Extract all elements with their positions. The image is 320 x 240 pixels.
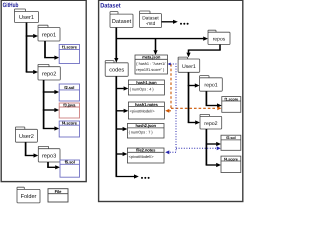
svg-text:User1: User1 (182, 64, 196, 70)
wire Dataset-mtd to ellipsis (162, 21, 174, 23)
link blue to file2.notes (167, 151, 176, 153)
svg-text:repo1: repo1 (204, 83, 217, 89)
file meta.json (135, 55, 168, 74)
svg-text:f2.sol: f2.sol (226, 136, 235, 140)
file f5.sol (60, 160, 80, 178)
file f3.java (59, 102, 79, 118)
wire branch to file2.notes (116, 153, 123, 155)
link orange to f1.score dataset (171, 107, 217, 109)
wire branch to f2.sol dataset (206, 143, 217, 145)
svg-text:repo2: repo2 (204, 121, 217, 127)
wire repo2 dataset trunk (205, 129, 207, 165)
svg-text:File: File (55, 189, 62, 194)
wire branch to repo2 dataset (188, 122, 196, 124)
wire codes trunk lower (115, 76, 117, 176)
folder User2 (15, 127, 37, 142)
wire Dataset trunk upper (115, 28, 117, 59)
file f4.score (59, 121, 79, 137)
svg-text:User1: User1 (19, 15, 34, 21)
folder repo2 (38, 64, 60, 80)
svg-text:{ numOps : 7 }: { numOps : 7 } (129, 130, 154, 135)
svg-text:f2.sol: f2.sol (64, 85, 74, 90)
svg-text:file2.notes: file2.notes (136, 148, 156, 153)
svg-text:repos: repos (213, 37, 226, 43)
svg-text:f4.score: f4.score (62, 121, 78, 126)
svg-text:Folder: Folder (21, 193, 37, 200)
GitHub container box (1, 0, 86, 181)
wire branch to f4.score dataset (206, 164, 217, 166)
folder repos (208, 30, 230, 44)
wire branch to hash1.notes (116, 110, 124, 112)
file f4.score dataset (221, 156, 241, 172)
wire branch to repo2 (26, 71, 34, 73)
wire repo1 to f1.score (44, 41, 46, 58)
wire branch to hash2.json (116, 128, 123, 130)
svg-text:repo1/f1.score" }: repo1/f1.score" } (136, 67, 165, 72)
svg-text:<pivotModel/>: <pivotModel/> (130, 109, 156, 114)
Dataset container box (99, 0, 243, 201)
file f1.score (59, 45, 79, 64)
svg-text:Dataset: Dataset (142, 15, 159, 21)
link orange vertical (170, 64, 172, 110)
svg-text:repo3: repo3 (42, 154, 56, 160)
svg-text:{ numOps : 4 }: { numOps : 4 } (130, 87, 155, 92)
wire User2 to repo3 (25, 142, 27, 155)
svg-text:-mtd: -mtd (146, 21, 156, 27)
wire User1 dataset trunk (188, 72, 190, 122)
wire repos elbow to User1 (219, 45, 221, 51)
folder repo1 dataset (200, 76, 223, 92)
wire branch to repo1 dataset (188, 85, 195, 87)
wire branch to f2.sol (43, 91, 55, 93)
wire repo3 to f5.sol (47, 162, 49, 167)
wire drop to meta.json (155, 39, 157, 51)
legend folder icon (17, 187, 40, 203)
svg-text:f1.score: f1.score (224, 97, 238, 101)
svg-text:f3.java: f3.java (63, 102, 76, 107)
svg-text:GitHub: GitHub (3, 2, 19, 9)
ellipsis after mtd arrow (180, 23, 189, 25)
wire branch to f4.score (43, 128, 55, 130)
file f1.score dataset (222, 97, 241, 113)
svg-text:<pivotModel/>: <pivotModel/> (129, 154, 155, 159)
svg-text:repo1: repo1 (42, 32, 56, 38)
file file2.notes (127, 148, 164, 163)
svg-text:hash2.json: hash2.json (136, 123, 157, 128)
folder repo1 (38, 25, 60, 41)
svg-text:repo2: repo2 (42, 72, 56, 78)
folder repo3 (38, 146, 60, 162)
wire branch to f3.java (43, 109, 55, 111)
wire User1 trunk (26, 23, 28, 73)
svg-text:Dataset: Dataset (112, 19, 132, 25)
svg-text:meta.json: meta.json (142, 55, 161, 60)
svg-text:{ hash1 : "/user1/: { hash1 : "/user1/ (136, 61, 166, 66)
folder Dataset (110, 12, 133, 28)
svg-text:hash1.json: hash1.json (136, 80, 157, 85)
wire branch to hash1.json (116, 88, 124, 90)
file f2.sol dataset (221, 135, 241, 150)
link orange to hash1.notes (169, 110, 171, 112)
link blue to f2.sol dataset (176, 147, 216, 149)
file hash2.json (127, 123, 164, 138)
svg-text:codes: codes (109, 67, 124, 74)
wire branch to repos (116, 38, 203, 40)
folder User1 dataset (178, 57, 200, 72)
wire branch to repo1 (26, 35, 34, 37)
folder repo2 dataset (200, 114, 222, 129)
svg-text:f1.score: f1.score (62, 45, 78, 50)
svg-text:hash1.notes: hash1.notes (135, 102, 159, 107)
file f2.sol (59, 84, 79, 101)
file hash1.notes (128, 102, 164, 119)
folder User1 (15, 9, 39, 23)
wire repo1 dataset to f1.score (205, 91, 207, 105)
wire repo2 trunk (43, 80, 45, 129)
legend file icon (48, 189, 68, 202)
folder codes (105, 61, 128, 77)
link blue from meta.json (170, 64, 176, 152)
ellipsis bottom of hash list (141, 177, 150, 179)
svg-text:Dataset: Dataset (100, 2, 121, 9)
folder Dataset-mtd (140, 11, 162, 28)
svg-text:User2: User2 (19, 134, 34, 140)
svg-text:f4.score: f4.score (224, 157, 238, 161)
file hash1.json (128, 80, 164, 95)
svg-text:f5.sol: f5.sol (65, 160, 75, 165)
